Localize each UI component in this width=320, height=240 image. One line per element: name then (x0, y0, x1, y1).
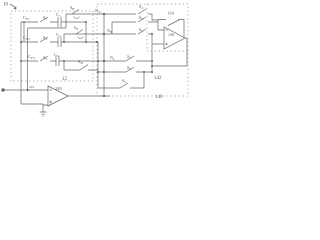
junction dot node D (103, 71, 105, 73)
dashed box 12 (left capacitor bank) (11, 11, 93, 81)
op-amp U2 (164, 27, 185, 49)
feedback switch blade (168, 20, 179, 26)
output feedback vertical (186, 38, 188, 66)
capacitor C2 (58, 37, 61, 47)
feedback return wire y66 (152, 65, 187, 67)
svg-text:142: 142 (154, 76, 162, 81)
switch SA3 on row C (138, 29, 146, 34)
node label NC (110, 55, 115, 61)
tiny annotation (29, 85, 35, 89)
junction dot row3/x21 (20, 60, 22, 62)
vertical x86 joining row1 and row2 (85, 22, 87, 42)
svg-text:NC: NC (110, 55, 115, 61)
switch SA2 (138, 17, 146, 22)
junction dot input/x27 (26, 89, 28, 91)
switch S3 (40, 56, 48, 61)
ground (40, 112, 47, 116)
label SB2 (74, 25, 78, 31)
svg-text:C3: C3 (54, 52, 59, 58)
svg-text:12: 12 (62, 77, 68, 82)
input wire Vin (3, 89, 48, 91)
left bus vertical x21 row2-ground bus (20, 22, 22, 104)
label C1 (56, 12, 61, 18)
svg-text:CF3: CF3 (28, 54, 35, 60)
label S3 (43, 55, 48, 61)
svg-text:S6: S6 (139, 27, 143, 33)
bypass branch row3 (64, 42, 98, 88)
junction dot loop left (97, 71, 99, 73)
svg-text:NB: NB (107, 28, 112, 34)
svg-text:NA: NA (95, 8, 101, 14)
switch S8 (126, 67, 134, 72)
label S2 (43, 35, 48, 41)
label S1 (43, 15, 48, 21)
junction dot row1/x24 (23, 21, 25, 23)
junction dot row72/x144 (143, 71, 145, 73)
junction dot row2 right end (96, 41, 98, 43)
junction dot node C (103, 60, 105, 62)
label 140 (155, 95, 163, 100)
svg-text:134: 134 (167, 11, 175, 16)
dashed box 14 (right block) (97, 4, 188, 96)
switch S1 (40, 17, 48, 22)
op-amp output wire (68, 95, 110, 97)
node dot bypass right (97, 60, 99, 62)
svg-text:241: 241 (29, 85, 35, 89)
svg-text:S3: S3 (43, 55, 48, 61)
leader arrow from label 10 (10, 4, 16, 9)
right row A wire y14 (104, 14, 158, 20)
junction dot output/x104 (103, 95, 105, 97)
wire row1 (21, 14, 104, 22)
op-amp U2 input signs (166, 30, 168, 45)
label 240 (55, 86, 63, 91)
label CF2 (23, 35, 30, 41)
op-amp U2 output wire (185, 37, 187, 39)
svg-text:10: 10 (3, 3, 9, 8)
node dot bypass left (63, 60, 65, 62)
label 136 (168, 32, 174, 37)
riser row2 bypass (63, 34, 65, 42)
label SA3 (139, 27, 143, 33)
dashed box 134 (right op-amp block) (147, 4, 188, 51)
junction dot row60/x152 (151, 60, 153, 62)
junction dot node B (103, 33, 105, 35)
svg-text:CF1: CF1 (23, 15, 30, 21)
op-amp U1 (240) (48, 86, 68, 106)
switch SB2 blade (76, 30, 83, 35)
label SB (78, 59, 84, 65)
svg-text:SB: SB (78, 59, 84, 65)
svg-text:140: 140 (155, 95, 163, 100)
svg-text:S9: S9 (122, 78, 126, 84)
svg-text:SB: SB (70, 5, 74, 11)
svg-text:C1: C1 (56, 12, 61, 18)
wire row2 (21, 41, 97, 43)
junction dot y66/x152 (151, 65, 153, 67)
left bus vertical x27 row1-row3-input (27, 28, 29, 90)
switch S2 (40, 37, 48, 42)
label CF1 (23, 15, 30, 21)
bypass switch SB (80, 65, 88, 71)
plus input wire U2 (152, 34, 164, 72)
junction dot row72/x152 (151, 71, 153, 73)
switch SB2 arc (78, 37, 84, 39)
svg-text:S4: S4 (139, 4, 144, 10)
svg-text:SB: SB (74, 25, 78, 31)
svg-text:S5: S5 (139, 15, 144, 21)
node label NA (95, 8, 101, 14)
op-amp U1 input signs (50, 90, 53, 103)
junction dot row2 riser (63, 41, 65, 43)
label 12 (62, 77, 68, 82)
wire y34 row2 bypass to node B (64, 33, 152, 35)
figure reference label 10 (3, 3, 9, 8)
right row B wire y22 (112, 22, 158, 34)
capacitor C3 (56, 56, 59, 66)
switch arc mark (74, 17, 80, 19)
switch S7 (126, 56, 134, 61)
svg-text:S8: S8 (127, 65, 131, 71)
label C3 (54, 52, 59, 58)
svg-text:136: 136 (168, 32, 174, 37)
svg-text:C2: C2 (56, 32, 61, 38)
wire row3 (21, 60, 152, 62)
op-amp U2 feedback loop (158, 20, 184, 39)
label SA2 (139, 15, 144, 21)
junction dot row2/x86 (85, 41, 87, 43)
right bottom row y72 (98, 71, 152, 73)
switch SA1 (138, 9, 146, 14)
label S9 (122, 78, 126, 84)
label S7 (127, 54, 131, 60)
main vertical bus x104 (103, 14, 105, 96)
op-amp plus input wire (43, 104, 48, 112)
node label NB (107, 28, 112, 34)
left bus vertical x24 row1-row2 (23, 22, 25, 42)
svg-text:S7: S7 (127, 54, 131, 60)
label 142 (154, 76, 162, 81)
label CF3 (28, 54, 35, 60)
junction dot row1 x86 (85, 21, 87, 23)
ground bus wire (21, 103, 43, 105)
switch SB1 on upper wire (72, 10, 79, 15)
riser x66 (28, 14, 67, 28)
junction dot rowC/x152 (151, 33, 153, 35)
junction dot row2/x21 (20, 41, 22, 43)
label SA1 (139, 4, 144, 10)
switch S9 (120, 83, 128, 88)
label S8 (127, 65, 131, 71)
capacitor C1 (58, 17, 61, 27)
junction dot node A (103, 13, 105, 15)
svg-text:240: 240 (55, 86, 63, 91)
label SB1 (70, 5, 74, 11)
bottom U loop y88 (98, 72, 144, 88)
label C2 (56, 32, 61, 38)
label 134 (167, 11, 175, 16)
input terminal (2, 89, 5, 92)
